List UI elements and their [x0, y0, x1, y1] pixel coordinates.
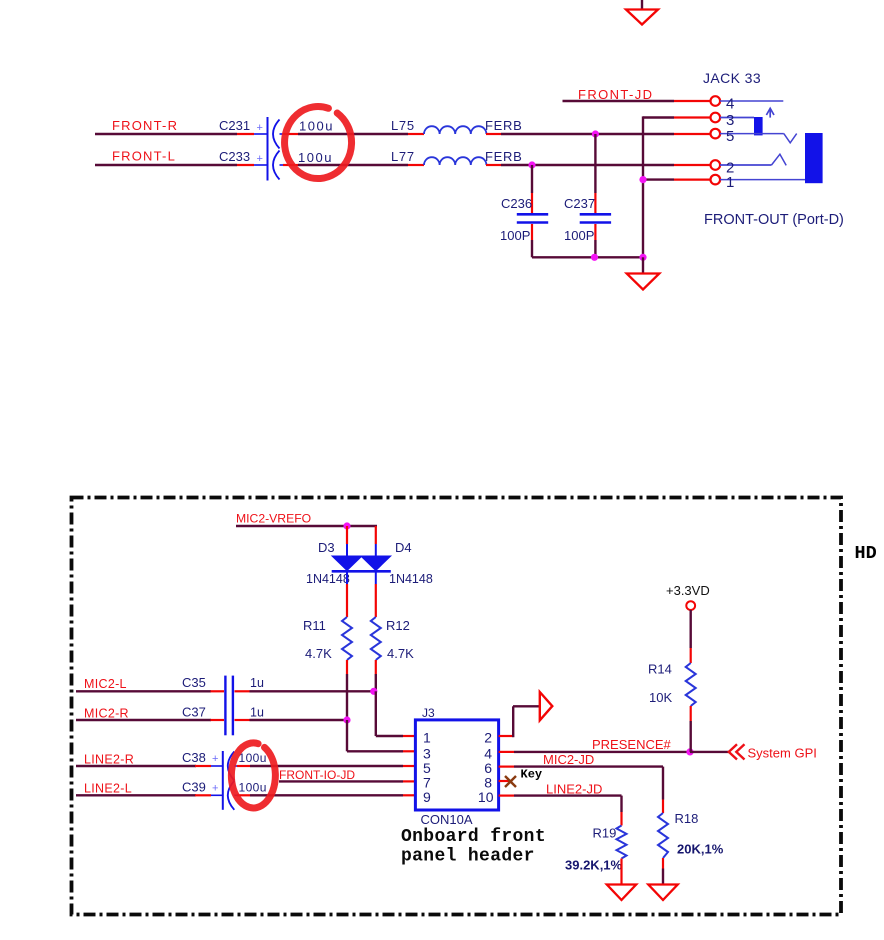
jack pin 3: [711, 113, 721, 123]
svg-text:C35: C35: [182, 675, 206, 690]
svg-text:FRONT-IO-JD: FRONT-IO-JD: [279, 768, 355, 782]
ground: [627, 274, 660, 290]
svg-text:C231: C231: [219, 118, 250, 133]
output arrow: [540, 692, 553, 720]
svg-text:+: +: [257, 153, 263, 165]
wire pin2 to arrow: [512, 706, 514, 737]
wire pin10 to R19: [514, 794, 622, 796]
svg-text:R19: R19: [593, 826, 617, 841]
svg-text:R18: R18: [675, 811, 699, 826]
wire: [76, 794, 196, 796]
jack sleeve: [805, 133, 823, 183]
svg-text:C38: C38: [182, 750, 206, 765]
wire pin4 stub: [674, 100, 711, 102]
node row2-C236 junction: [528, 161, 535, 168]
wire: [95, 164, 237, 166]
wire D3 cathode: [346, 571, 348, 584]
wire pin3 to gnd vertical: [643, 116, 674, 118]
svg-text:5: 5: [726, 128, 734, 145]
svg-text:C237: C237: [564, 196, 595, 211]
wire pin6 to R18: [514, 765, 663, 767]
svg-text:D3: D3: [318, 540, 335, 555]
wire to J3 pin7: [279, 780, 403, 782]
wire to J3 pin9: [250, 794, 403, 796]
wire D3 anode: [346, 526, 348, 544]
wire C236 vertical: [531, 165, 533, 193]
pin8 key no-connect: [505, 776, 516, 787]
wire D4 cathode: [375, 571, 377, 584]
svg-text:System GPI: System GPI: [748, 746, 817, 761]
wire C237 vertical: [594, 134, 596, 193]
svg-text:9: 9: [423, 789, 431, 805]
svg-text:1N4148: 1N4148: [306, 572, 350, 586]
wire ground rail: [532, 256, 643, 258]
wire pin2 stub: [674, 164, 711, 166]
wire: [298, 164, 408, 166]
svg-text:C39: C39: [182, 780, 206, 795]
wire: [563, 100, 675, 102]
jack pin 5: [711, 129, 721, 139]
wire pin5 stub: [674, 133, 711, 135]
svg-text:1N4148: 1N4148: [389, 572, 433, 586]
jack pin 2: [711, 160, 721, 170]
node PRESENCE junction: [686, 748, 693, 755]
wire: [95, 133, 237, 135]
svg-text:C233: C233: [219, 149, 250, 164]
wire: [298, 133, 408, 135]
wire: [250, 690, 374, 692]
dashed border box: [72, 498, 842, 915]
wire R12 to J3 pin1: [375, 691, 377, 736]
wire: [76, 719, 211, 721]
svg-text:C236: C236: [501, 196, 532, 211]
wire: [76, 765, 196, 767]
ground R18: [648, 885, 677, 901]
svg-text:3: 3: [423, 745, 431, 761]
svg-text:FERB: FERB: [485, 149, 522, 164]
svg-text:1: 1: [726, 174, 734, 191]
jack arrow up: [769, 109, 771, 118]
svg-text:L77: L77: [391, 149, 415, 164]
svg-text:FRONT-R: FRONT-R: [112, 118, 178, 133]
wire pin4: [514, 751, 690, 753]
svg-text:CON10A: CON10A: [421, 812, 473, 827]
diode cathode bar: [332, 570, 391, 573]
node MIC2-R / R11 junction: [343, 716, 350, 723]
svg-text:LINE2-R: LINE2-R: [84, 753, 134, 767]
svg-text:4.7K: 4.7K: [387, 646, 414, 661]
offpage chevrons System GPI: [729, 744, 737, 759]
svg-text:10: 10: [478, 789, 494, 805]
wire: [250, 719, 348, 721]
svg-text:LINE2-JD: LINE2-JD: [546, 782, 602, 797]
svg-text:D4: D4: [395, 540, 412, 555]
wire D4 anode: [375, 526, 377, 544]
svg-text:MIC2-VREFO: MIC2-VREFO: [236, 512, 311, 526]
wire: [501, 164, 674, 166]
svg-text:1: 1: [423, 730, 431, 746]
svg-text:39.2K,1%: 39.2K,1%: [565, 858, 623, 873]
svg-text:8: 8: [484, 775, 492, 791]
svg-text:MIC2-JD: MIC2-JD: [543, 752, 594, 767]
svg-text:FRONT-JD: FRONT-JD: [578, 87, 653, 102]
ground: [641, 0, 643, 11]
node pin1 junction: [643, 178, 674, 180]
svg-text:100u: 100u: [239, 751, 267, 765]
svg-text:C37: C37: [182, 705, 206, 720]
wire: [642, 257, 644, 274]
svg-text:MIC2-R: MIC2-R: [84, 707, 129, 721]
ground R19: [607, 885, 636, 901]
svg-text:100u: 100u: [298, 150, 333, 165]
svg-text:10K: 10K: [649, 690, 672, 705]
svg-text:HD: HD: [855, 543, 877, 564]
svg-text:R11: R11: [303, 618, 326, 633]
jack pin 4: [711, 96, 721, 106]
svg-text:FRONT-L: FRONT-L: [112, 149, 176, 164]
node row1-C237 junction: [592, 130, 599, 137]
svg-text:7: 7: [423, 775, 431, 791]
svg-text:FERB: FERB: [485, 118, 522, 133]
svg-text:4: 4: [484, 745, 492, 761]
svg-text:Key: Key: [521, 768, 543, 782]
svg-text:Onboard front: Onboard front: [401, 827, 546, 847]
svg-text:4: 4: [726, 95, 734, 112]
svg-text:R12: R12: [386, 618, 410, 633]
wire R11 to J3 pin3: [346, 720, 348, 751]
jack switch contact (pin3): [754, 117, 763, 135]
svg-text:100P: 100P: [564, 228, 594, 243]
svg-text:JACK 33: JACK 33: [703, 70, 761, 86]
svg-text:+3.3VD: +3.3VD: [666, 583, 710, 598]
annotation circle top: [285, 107, 352, 179]
svg-text:MIC2-L: MIC2-L: [84, 677, 127, 691]
svg-text:2: 2: [484, 730, 492, 746]
wire: [237, 133, 254, 135]
wire: [76, 690, 211, 692]
svg-text:LINE2-L: LINE2-L: [84, 782, 132, 796]
svg-text:1u: 1u: [250, 676, 264, 690]
svg-text:+: +: [212, 783, 218, 795]
svg-text:3: 3: [726, 112, 734, 129]
svg-text:20K,1%: 20K,1%: [677, 842, 724, 857]
annotation circle bottom: [231, 743, 275, 808]
svg-text:+: +: [212, 753, 218, 765]
svg-text:PRESENCE#: PRESENCE#: [592, 737, 672, 752]
node VREFO junction: [343, 522, 350, 529]
svg-text:J3: J3: [422, 706, 435, 720]
svg-text:100u: 100u: [299, 119, 334, 134]
svg-text:panel header: panel header: [401, 847, 535, 867]
right pin stubs: [499, 735, 514, 737]
svg-text:FRONT-OUT (Port-D): FRONT-OUT (Port-D): [704, 212, 844, 228]
svg-text:100u: 100u: [239, 781, 267, 795]
node MIC2-L / R12 junction: [370, 688, 377, 695]
wire: [236, 525, 377, 527]
wire: [501, 133, 674, 135]
svg-text:R14: R14: [648, 662, 672, 677]
wire to J3 pin5: [250, 765, 403, 767]
svg-text:1u: 1u: [250, 706, 264, 720]
wire: [237, 164, 254, 166]
svg-text:L75: L75: [391, 118, 415, 133]
jack pin 1: [711, 175, 721, 185]
svg-text:4.7K: 4.7K: [305, 646, 332, 661]
svg-text:100P: 100P: [500, 228, 530, 243]
svg-text:+: +: [257, 122, 263, 134]
